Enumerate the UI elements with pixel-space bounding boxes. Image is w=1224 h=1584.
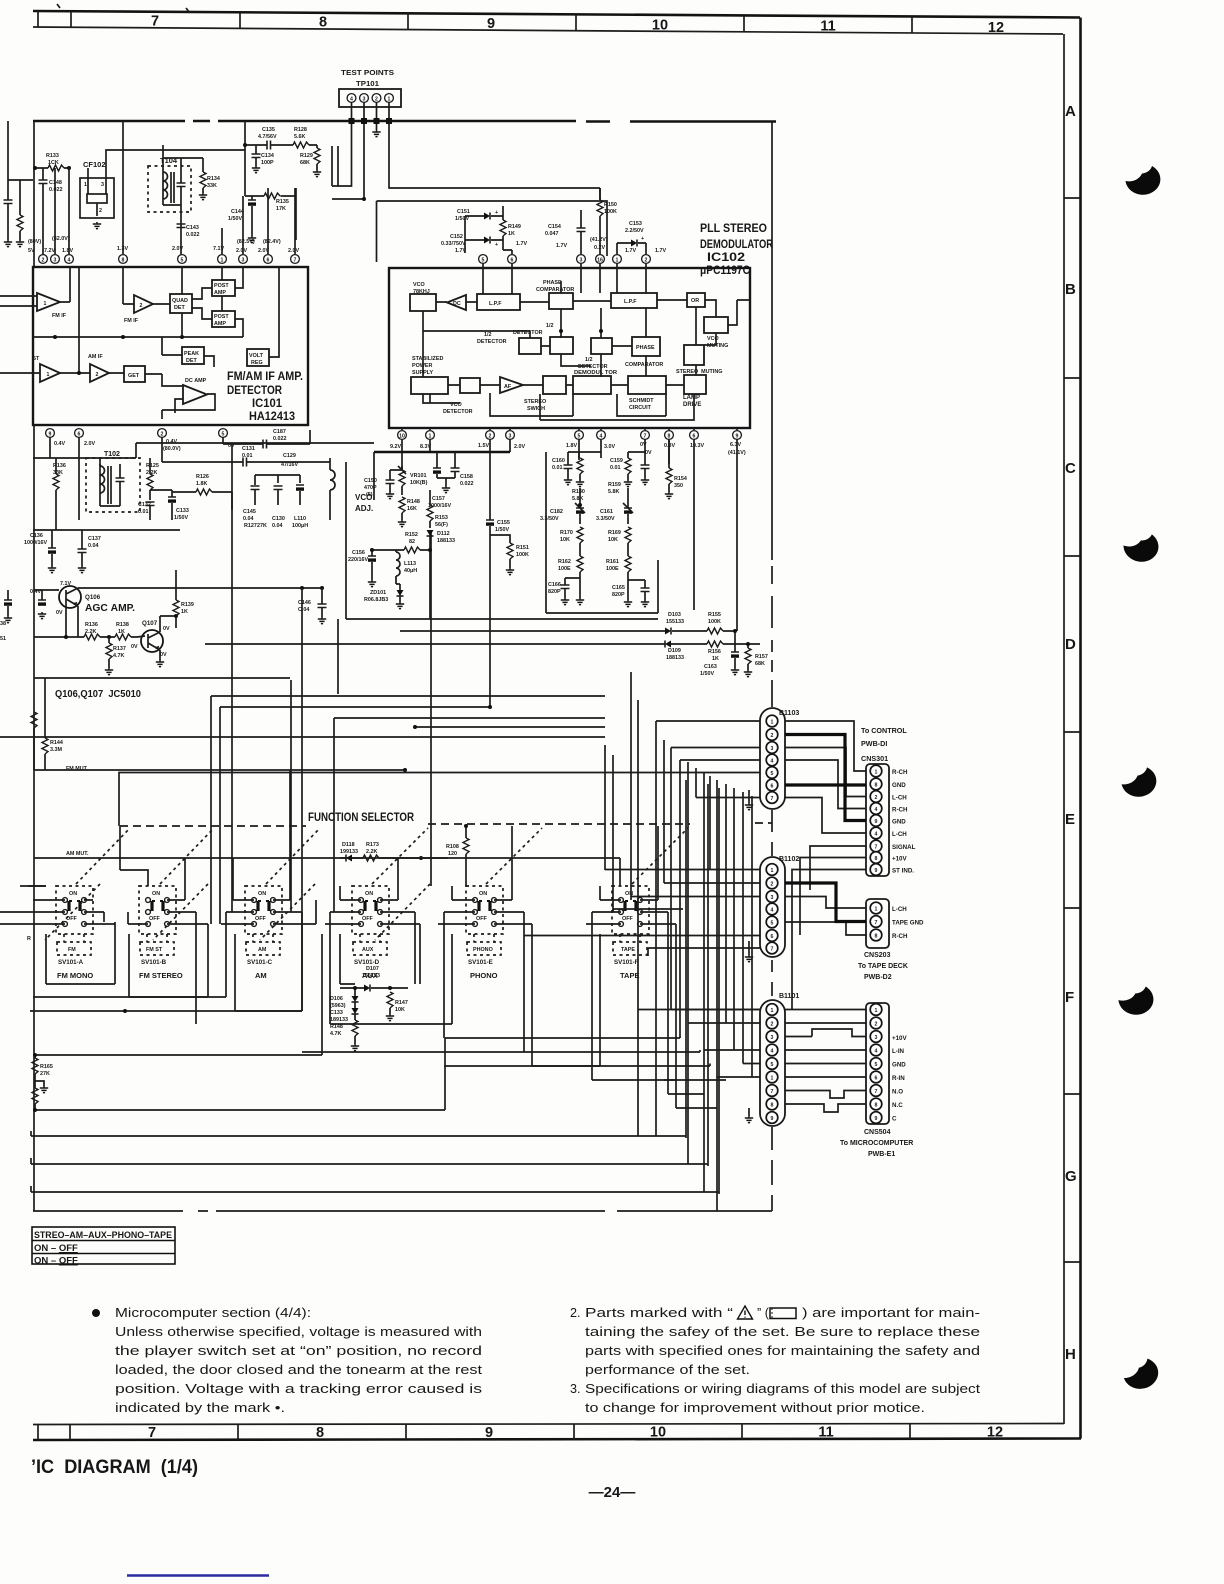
svg-text:GND: GND <box>892 782 906 789</box>
svg-text:C160: C160 <box>552 458 565 464</box>
svg-text:R152: R152 <box>405 532 418 538</box>
svg-text:0V: 0V <box>56 610 63 616</box>
svg-text:155133: 155133 <box>362 973 380 979</box>
svg-text:VCO: VCO <box>707 336 719 342</box>
svg-text:0.022: 0.022 <box>273 436 287 442</box>
svg-text:5: 5 <box>181 257 184 263</box>
connector B1103 <box>760 708 785 809</box>
svg-text:1: 1 <box>771 1008 774 1014</box>
svg-text:17K: 17K <box>276 206 286 212</box>
svg-text:(80.0V): (80.0V) <box>163 446 181 452</box>
svg-text:1: 1 <box>221 257 224 263</box>
post amp upper <box>212 280 235 296</box>
svg-text:Microcomputer section (4/4):: Microcomputer section (4/4): <box>115 1306 311 1320</box>
svg-text:1: 1 <box>47 372 50 378</box>
capacitor C132 <box>146 502 155 506</box>
svg-text:position. Voltage with a track: position. Voltage with a tracking error … <box>115 1382 482 1396</box>
svg-text:9: 9 <box>875 819 878 825</box>
svg-text:DET: DET <box>174 305 185 311</box>
svg-text:3: 3 <box>242 257 245 263</box>
svg-text:1: 1 <box>388 96 391 102</box>
svg-text:SV101-C: SV101-C <box>247 959 273 966</box>
svg-text:STREO–AM–AUX–PHONO–TAPE: STREO–AM–AUX–PHONO–TAPE <box>34 1230 172 1241</box>
svg-text:7: 7 <box>771 1089 774 1095</box>
pin drop wires <box>402 428 737 430</box>
switch F loop box <box>532 934 600 1066</box>
bundle horizontals feeding B1101 <box>638 1010 760 1109</box>
svg-text:CF102: CF102 <box>83 160 106 169</box>
svg-text:1: 1 <box>771 1076 774 1082</box>
svg-text:C131: C131 <box>242 446 255 452</box>
svg-text:5: 5 <box>482 257 485 263</box>
wire IC101 top pin drops <box>123 121 295 254</box>
capacitor C134 <box>252 154 261 158</box>
svg-text:FM MONO: FM MONO <box>57 971 93 980</box>
B1103 to CNS301 wires <box>785 721 866 833</box>
connector CNS301 <box>866 764 889 876</box>
svg-text:1.7V: 1.7V <box>655 248 666 254</box>
svg-text:C158: C158 <box>460 474 473 480</box>
lower-left rails <box>30 934 445 1110</box>
svg-text:SV101-F: SV101-F <box>614 959 639 966</box>
svg-text:4: 4 <box>68 257 71 263</box>
svg-text:4: 4 <box>771 759 774 765</box>
amp 1 FM IF <box>37 293 60 311</box>
capacitor C145 <box>251 486 260 490</box>
diode D112 <box>427 530 434 536</box>
svg-text:(82.4V): (82.4V) <box>263 239 281 245</box>
svg-text:R151: R151 <box>516 545 529 551</box>
node line to TP <box>332 146 364 199</box>
svg-text:GND: GND <box>892 1062 906 1069</box>
svg-text:470P: 470P <box>364 485 377 491</box>
bottom ruler ticks <box>38 1424 910 1440</box>
amp AM1 <box>40 364 60 382</box>
svg-text:N.C: N.C <box>892 1102 903 1109</box>
svg-text:820P: 820P <box>548 589 561 595</box>
svg-text:5: 5 <box>578 433 581 439</box>
svg-text:’IC DIAGRAM (1/4): ’IC DIAGRAM (1/4) <box>31 1456 198 1478</box>
svg-text:1.5V: 1.5V <box>478 443 489 449</box>
phase comparator lower <box>632 337 660 356</box>
capacitor C130 <box>274 486 283 490</box>
svg-text:R133: R133 <box>46 153 59 159</box>
svg-text:G: G <box>1065 1168 1077 1185</box>
svg-text:820P: 820P <box>612 592 625 598</box>
svg-text:1.8V: 1.8V <box>62 248 73 254</box>
svg-text:100K: 100K <box>604 209 617 215</box>
svg-text:ON – OFF: ON – OFF <box>34 1256 78 1267</box>
capacitor C148 <box>39 180 48 184</box>
B1101 to CNS504 wires <box>785 1010 866 1113</box>
svg-text:1.8K: 1.8K <box>196 481 207 487</box>
svg-text:C152: C152 <box>450 234 463 240</box>
svg-text:SCHMIDT: SCHMIDT <box>629 398 654 404</box>
svg-text:2.: 2. <box>570 1306 581 1320</box>
svg-text:C153: C153 <box>629 221 642 227</box>
svg-text:3.0V: 3.0V <box>604 444 615 450</box>
svg-text:5: 5 <box>222 431 225 437</box>
svg-text:L-CH: L-CH <box>892 906 907 913</box>
svg-text:R134: R134 <box>207 176 220 182</box>
svg-text:L113: L113 <box>404 561 416 567</box>
svg-text:CNS504: CNS504 <box>864 1129 891 1136</box>
svg-text:199133: 199133 <box>340 849 358 855</box>
svg-text:DC: DC <box>453 301 461 307</box>
resistor R134 <box>200 172 206 188</box>
svg-text:40μH: 40μH <box>404 568 417 574</box>
right border outer vertical <box>1079 18 1082 1439</box>
IC102 bottom pins <box>398 431 407 440</box>
vco muting box <box>704 317 728 333</box>
svg-text:MUTING: MUTING <box>707 343 728 349</box>
svg-text:C: C <box>892 1116 897 1123</box>
svg-text:R127: R127 <box>244 523 257 529</box>
svg-text:4: 4 <box>350 96 353 102</box>
svg-text:189133: 189133 <box>330 1017 348 1023</box>
svg-text:AGC AMP.: AGC AMP. <box>85 603 135 614</box>
resistor R139 <box>173 600 179 616</box>
lpf right <box>611 293 657 308</box>
TP pin 1 <box>385 94 394 103</box>
svg-text:To CONTROL: To CONTROL <box>861 726 907 735</box>
svg-text:100K: 100K <box>516 552 529 558</box>
svg-text:6: 6 <box>771 934 774 940</box>
svg-text:C129: C129 <box>283 453 296 459</box>
svg-text:C159: C159 <box>610 458 623 464</box>
svg-text:C154: C154 <box>548 224 561 230</box>
wire box feeding IC102 filter <box>377 201 608 262</box>
wire Q106 base and collector <box>34 588 322 637</box>
svg-text:100μH: 100μH <box>292 523 308 529</box>
switch E loop box <box>330 934 452 1024</box>
svg-text:R154: R154 <box>674 476 687 482</box>
switch B wires <box>120 826 208 1024</box>
wire T102 internals <box>100 458 120 506</box>
lamp drive <box>684 375 706 394</box>
switch B loop box <box>129 934 208 997</box>
svg-text:+10V: +10V <box>892 856 907 863</box>
long rail y678 <box>34 678 290 705</box>
svg-text:1/2: 1/2 <box>546 323 554 329</box>
svg-text:VOLT: VOLT <box>249 353 264 359</box>
switch state table <box>32 1227 175 1267</box>
svg-text:3: 3 <box>54 257 57 263</box>
svg-text:R157: R157 <box>755 654 768 660</box>
svg-text:PHASE: PHASE <box>636 345 655 351</box>
svg-text:220/16V: 220/16V <box>348 557 368 563</box>
resistor R159 <box>625 458 631 474</box>
note 2 and 3 text <box>570 1306 981 1415</box>
svg-text:9.2V: 9.2V <box>390 444 401 450</box>
svg-text:L.P.F: L.P.F <box>624 299 637 305</box>
svg-text:6: 6 <box>875 1076 878 1082</box>
svg-text:L-CH: L-CH <box>892 831 907 838</box>
svg-text:9: 9 <box>49 431 52 437</box>
svg-text:5T: 5T <box>33 356 40 362</box>
svg-text:L-IN: L-IN <box>892 1048 905 1055</box>
rail y443 left <box>33 437 136 520</box>
switch D loop box <box>340 924 420 984</box>
svg-text:GET: GET <box>128 373 140 379</box>
svg-text:AUX: AUX <box>362 947 374 953</box>
svg-text:0.04: 0.04 <box>243 516 254 522</box>
left bus <box>33 121 35 267</box>
svg-text:1/50V: 1/50V <box>228 216 242 222</box>
stereo switch <box>543 376 566 394</box>
svg-text:DEMODUL TOR: DEMODUL TOR <box>574 370 618 376</box>
svg-text:C144: C144 <box>231 209 244 215</box>
dashed return <box>33 1210 772 1212</box>
capacitor C144 <box>248 200 256 206</box>
svg-text:2.0V: 2.0V <box>288 248 299 254</box>
svg-text:SV101-E: SV101-E <box>468 959 493 966</box>
volt reg <box>247 349 269 366</box>
svg-text:the player switch set at “on”: the player switch set at “on” position, … <box>115 1344 482 1358</box>
svg-text:taining the safey of the set.: taining the safey of the set. Be sure to… <box>585 1325 980 1339</box>
svg-text:100E: 100E <box>606 566 619 572</box>
svg-text:SV101-D: SV101-D <box>354 959 380 966</box>
svg-text:N.O: N.O <box>892 1089 903 1096</box>
svg-text:1K: 1K <box>508 231 515 237</box>
svg-text:0.047: 0.047 <box>545 231 559 237</box>
svg-text:PHONO: PHONO <box>470 971 498 980</box>
svg-text:1K: 1K <box>712 656 719 662</box>
svg-text:0V: 0V <box>160 652 167 658</box>
svg-text:8: 8 <box>668 433 671 439</box>
svg-text:PLL STEREO: PLL STEREO <box>700 223 767 235</box>
svg-text:8: 8 <box>122 257 125 263</box>
IC102 internal wires <box>423 263 750 420</box>
svg-text:2.0V: 2.0V <box>84 441 95 447</box>
svg-text:F: F <box>1065 989 1074 1006</box>
svg-text:C133: C133 <box>330 1010 343 1016</box>
svg-text:QUAD: QUAD <box>172 298 188 304</box>
svg-text:ZD101: ZD101 <box>370 590 386 596</box>
svg-text:R162: R162 <box>558 559 571 565</box>
svg-text:1.7V: 1.7V <box>625 248 636 254</box>
svg-text:1: 1 <box>875 907 878 913</box>
selector dashed bus <box>120 823 772 826</box>
svg-text:PWB-DI: PWB-DI <box>861 739 887 748</box>
svg-text:to change for improvement with: to change for improvement without prior … <box>585 1401 925 1415</box>
svg-text:2.2K: 2.2K <box>366 849 377 855</box>
stray mark top left <box>57 4 60 8</box>
svg-text:(5): (5) <box>366 492 373 498</box>
svg-text:5: 5 <box>771 1062 774 1068</box>
top ruler ticks <box>38 11 912 33</box>
svg-text:1: 1 <box>44 301 47 307</box>
svg-text:AMP: AMP <box>214 290 226 296</box>
svg-text:AM IF: AM IF <box>88 354 103 360</box>
svg-text:R126: R126 <box>196 474 209 480</box>
svg-text:1: 1 <box>616 257 619 263</box>
svg-text:R135: R135 <box>276 199 289 205</box>
svg-text:T102: T102 <box>104 451 120 458</box>
svg-text:DRIVE: DRIVE <box>683 402 701 408</box>
svg-text:R128: R128 <box>294 127 307 133</box>
B1102 ground stub <box>748 941 750 955</box>
demodulator box <box>573 376 611 394</box>
resistor R160 <box>577 458 583 474</box>
svg-text:C161: C161 <box>600 509 613 515</box>
svg-text:7: 7 <box>771 796 774 802</box>
IC102 outer box <box>389 268 750 428</box>
connector CNS203 <box>866 899 889 948</box>
svg-text:C151: C151 <box>457 209 470 215</box>
svg-text:3: 3 <box>101 182 104 188</box>
svg-text:C187: C187 <box>273 429 286 435</box>
svg-text:FM STEREO: FM STEREO <box>139 971 183 980</box>
svg-text:(5963): (5963) <box>330 1003 346 1009</box>
pin7 stub ground <box>748 790 750 803</box>
right border inner vertical <box>1063 34 1065 1424</box>
test point connector TP101 <box>339 89 401 107</box>
note 1 text <box>115 1306 483 1415</box>
svg-text:0V: 0V <box>163 626 170 632</box>
svg-text:R144: R144 <box>50 740 63 746</box>
svg-text:0V: 0V <box>640 442 647 448</box>
svg-text:8: 8 <box>875 783 878 789</box>
capacitor C133 <box>168 497 176 503</box>
svg-text:ADJ.: ADJ. <box>355 504 373 513</box>
svg-text:R-CH: R-CH <box>892 933 908 940</box>
svg-text:0.01: 0.01 <box>552 465 563 471</box>
svg-text:ST IND.: ST IND. <box>892 868 914 875</box>
svg-text:R170: R170 <box>560 530 573 536</box>
svg-text:TAPE: TAPE <box>621 947 635 953</box>
svg-text:2: 2 <box>161 431 164 437</box>
internal rail <box>33 267 243 337</box>
svg-text:VCO: VCO <box>413 282 425 288</box>
svg-text:R136: R136 <box>85 622 98 628</box>
svg-text:1/50V: 1/50V <box>495 527 509 533</box>
svg-text:PWB-E1: PWB-E1 <box>868 1151 895 1158</box>
IC101 outer box <box>33 267 308 425</box>
svg-text:9: 9 <box>771 1116 774 1122</box>
svg-text:R161: R161 <box>606 559 619 565</box>
svg-text:0.4V: 0.4V <box>166 439 177 445</box>
pwb boundary dash line <box>771 122 773 560</box>
svg-text:1K: 1K <box>181 609 188 615</box>
svg-text:SV101-B: SV101-B <box>141 959 167 966</box>
svg-text:2.0V: 2.0V <box>172 246 183 252</box>
svg-text:Unless otherwise specified, vo: Unless otherwise specified, voltage is m… <box>115 1325 482 1339</box>
amp 2 FM IF <box>134 295 153 313</box>
svg-text:R06.8JB3: R06.8JB3 <box>364 597 388 603</box>
svg-text:R138: R138 <box>116 622 129 628</box>
svg-text:188133: 188133 <box>666 655 684 661</box>
svg-text:FUNCTION SELECTOR: FUNCTION SELECTOR <box>308 812 415 824</box>
svg-text:AM: AM <box>255 971 267 980</box>
svg-text:R165: R165 <box>40 1064 53 1070</box>
svg-text:SWICH: SWICH <box>527 406 545 412</box>
svg-text:0.01: 0.01 <box>138 509 149 515</box>
svg-text:DEMODULATOR: DEMODULATOR <box>700 239 774 251</box>
svg-text:3: 3 <box>875 1035 878 1041</box>
svg-text:3.3/50V: 3.3/50V <box>540 516 559 522</box>
note 1 bullet <box>92 1309 100 1317</box>
bottom ruler line outer <box>33 1439 1081 1441</box>
svg-text:100K: 100K <box>708 619 721 625</box>
svg-text:100E: 100E <box>558 566 571 572</box>
svg-text:R-IN: R-IN <box>892 1075 905 1082</box>
svg-text:R129: R129 <box>300 153 313 159</box>
svg-text:L-CH: L-CH <box>892 795 907 802</box>
svg-text:2: 2 <box>375 96 378 102</box>
svg-text:155133: 155133 <box>666 619 684 625</box>
svg-text:5.6K: 5.6K <box>294 134 305 140</box>
svg-text:FM MUT.: FM MUT. <box>66 766 88 772</box>
svg-text:FM IF: FM IF <box>52 313 67 319</box>
svg-text:FM IF: FM IF <box>124 318 139 324</box>
svg-text:DETECTOR: DETECTOR <box>443 409 473 415</box>
svg-text:R136: R136 <box>53 463 66 469</box>
svg-text:27K: 27K <box>257 523 267 529</box>
svg-text:C130: C130 <box>272 516 285 522</box>
svg-text:FM: FM <box>68 947 76 953</box>
svg-text:7: 7 <box>875 920 878 926</box>
svg-text:PHONO: PHONO <box>473 947 493 953</box>
svg-text:DC AMP: DC AMP <box>185 378 207 384</box>
svg-text:C132: C132 <box>138 502 151 508</box>
svg-text:” (: ” ( <box>757 1306 770 1320</box>
top ruler line outer <box>33 11 1080 18</box>
svg-text:3.3M: 3.3M <box>50 747 62 753</box>
svg-text:D107: D107 <box>366 966 379 972</box>
svg-text:Q107: Q107 <box>142 620 158 627</box>
svg-text:) are important for main-: ) are important for main- <box>802 1306 980 1320</box>
connector B1102 <box>760 857 785 957</box>
svg-text:1: 1 <box>771 868 774 874</box>
svg-text:9: 9 <box>485 1425 493 1441</box>
svg-text:1K: 1K <box>118 629 125 635</box>
svg-text:IC101: IC101 <box>252 398 283 410</box>
stereo muting box <box>684 345 704 365</box>
svg-text:C146: C146 <box>298 600 311 606</box>
TP pin 4 <box>347 94 356 103</box>
svg-text:5.8K: 5.8K <box>572 496 583 502</box>
svg-text:9: 9 <box>736 433 739 439</box>
svg-text:DETECTOR: DETECTOR <box>227 385 283 397</box>
bundle horizontals feeding B1103 <box>119 721 760 826</box>
svg-text:loaded, the door closed and th: loaded, the door closed and the tonearm … <box>115 1363 483 1377</box>
svg-text:indicated by the mark •.: indicated by the mark •. <box>115 1401 285 1415</box>
svg-text:R150: R150 <box>604 202 617 208</box>
svg-text:82: 82 <box>409 539 415 545</box>
svg-text:3: 3 <box>509 433 512 439</box>
wire T104 node <box>163 145 203 259</box>
svg-text:POST: POST <box>214 314 229 320</box>
svg-text:5V: 5V <box>28 248 35 254</box>
svg-text:PHASE: PHASE <box>543 280 562 286</box>
svg-text:ON – OFF: ON – OFF <box>34 1243 78 1254</box>
svg-text:4: 4 <box>771 908 774 914</box>
svg-text:47/16V: 47/16V <box>281 462 298 468</box>
sample box glyph <box>770 1308 796 1319</box>
svg-text:16: 16 <box>597 257 603 263</box>
switch E wires <box>438 826 532 1066</box>
svg-text:D: D <box>1065 636 1076 653</box>
svg-text:R169: R169 <box>608 530 621 536</box>
svg-text:B1101: B1101 <box>779 993 799 1000</box>
wire loop returns <box>31 1131 719 1194</box>
svg-text:C150: C150 <box>364 478 377 484</box>
svg-text:8: 8 <box>316 1425 324 1441</box>
svg-text:TP101: TP101 <box>356 79 379 88</box>
svg-text:6.3V: 6.3V <box>730 442 741 448</box>
svg-text:C166: C166 <box>548 582 561 588</box>
